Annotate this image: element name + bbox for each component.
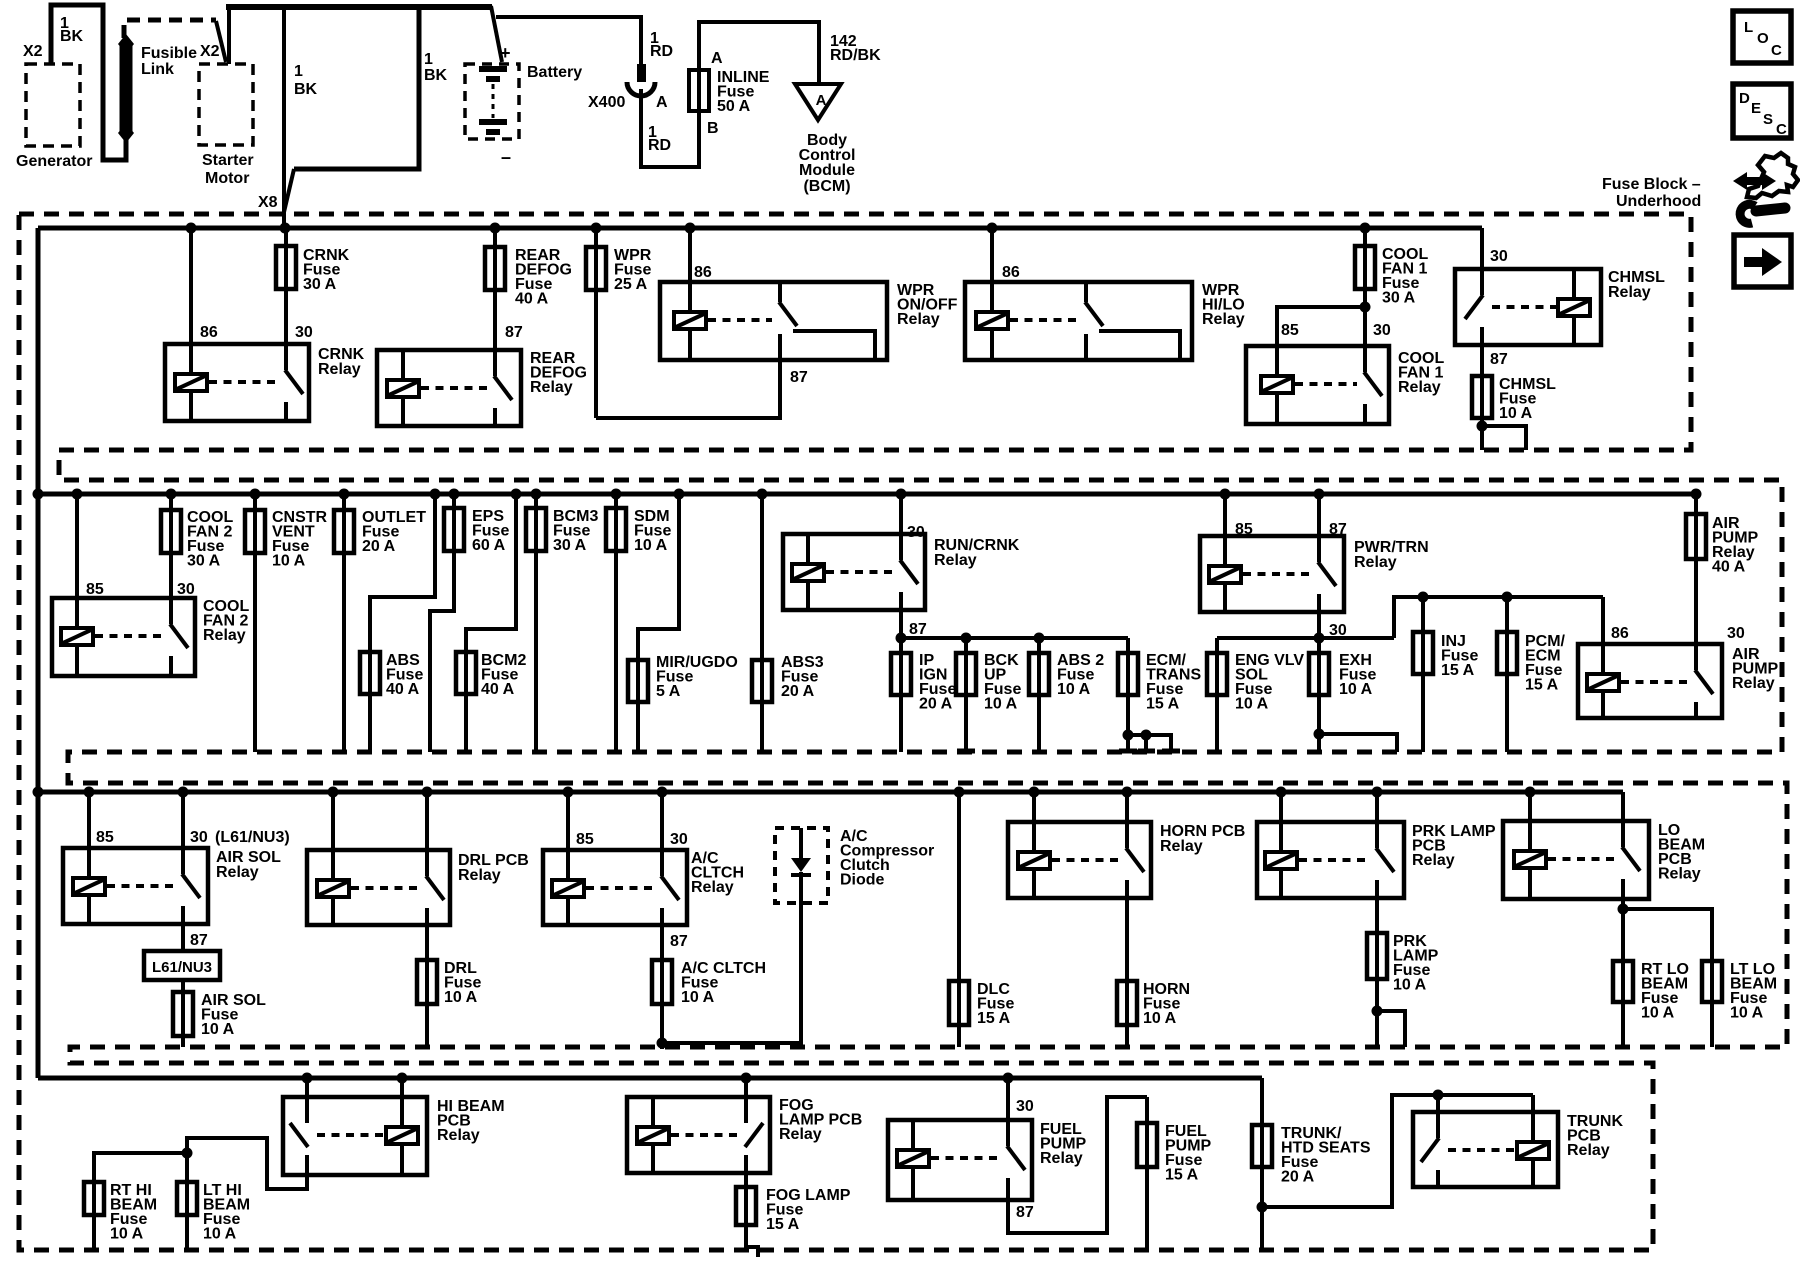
svg-text:10 A: 10 A — [201, 1021, 235, 1038]
battery (dashed box) — [465, 64, 519, 139]
svg-text:30: 30 — [1727, 625, 1745, 642]
node LO BEAM output junction — [1618, 904, 1629, 915]
svg-text:30: 30 — [1016, 1098, 1034, 1115]
fuse FUEL PUMP 15 A — [1145, 1097, 1149, 1250]
fuse ABS3 20 A — [760, 494, 764, 752]
fuse CRNK 30 A — [284, 228, 288, 344]
wire LO BEAM output — [1621, 899, 1625, 909]
node DRL coil tap — [328, 787, 339, 798]
node SDM fuse tap — [611, 489, 622, 500]
node PRK LAMP coil tap — [1276, 787, 1287, 798]
fuse HORN 10 A — [1125, 898, 1129, 1047]
wire CHMSL relay 30 — [1480, 228, 1484, 295]
svg-text:15 A: 15 A — [977, 1010, 1011, 1027]
node HORN coil tap — [1029, 787, 1040, 798]
generator X2 connector (dashed box) — [26, 64, 80, 146]
svg-text:87: 87 — [190, 932, 208, 949]
node FUEL PUMP 30 tap — [1003, 1073, 1014, 1084]
relay FOG LAMP PCB — [627, 1097, 770, 1173]
node TRUNK fuse output — [1257, 1202, 1268, 1213]
svg-text:60 A: 60 A — [472, 537, 506, 554]
fuse DLC 15 A — [957, 792, 961, 1047]
node CRNK 86 tap — [186, 223, 197, 234]
svg-text:10 A: 10 A — [1641, 1005, 1675, 1022]
node WPR HI/LO 86 tap — [987, 223, 998, 234]
node PWR/TRN 85 tap — [1220, 489, 1231, 500]
svg-text:10 A: 10 A — [1235, 696, 1269, 713]
svg-text:Relay: Relay — [779, 1126, 822, 1143]
wire RUN/CRNK 87 bus — [899, 610, 903, 638]
svg-text:Relay: Relay — [1354, 554, 1397, 571]
relay WPR HI/LO — [965, 282, 1192, 360]
fuse BCM2 40 A — [466, 494, 516, 752]
svg-text:10 A: 10 A — [1499, 405, 1533, 422]
fuse LT HI BEAM 10 A — [185, 1153, 189, 1248]
wire battery + to X400 — [496, 17, 641, 64]
svg-text:Fusible: Fusible — [141, 45, 197, 62]
diode A/C compressor clutch (dashed box) — [775, 828, 828, 903]
wire HI BEAM relay switch — [305, 1078, 309, 1123]
svg-text:30: 30 — [1373, 322, 1391, 339]
svg-text:30 A: 30 A — [187, 553, 221, 570]
svg-text:40 A: 40 A — [515, 291, 549, 308]
wire HORN relay coil — [1032, 792, 1036, 852]
node PRK LAMP fuse output — [1372, 1006, 1383, 1017]
icon box LOC — [1733, 11, 1791, 63]
wire FUEL PUMP relay 30 — [1006, 1078, 1010, 1146]
node TRUNK relay switch tap — [1433, 1090, 1444, 1101]
svg-text:30: 30 — [177, 581, 195, 598]
node AIR SOL 30 tap — [178, 787, 189, 798]
relay WPR ON/OFF — [660, 282, 887, 360]
node PCM/ECM fuse tap — [1502, 592, 1513, 603]
svg-text:X400: X400 — [588, 94, 625, 111]
fuse PCM/ECM 15 A — [1505, 597, 1509, 752]
svg-text:87: 87 — [670, 933, 688, 950]
svg-text:10 A: 10 A — [272, 553, 306, 570]
svg-text:Motor: Motor — [205, 170, 249, 187]
node LO BEAM coil tap — [1525, 787, 1536, 798]
node BCM2 fuse tap — [511, 489, 522, 500]
node BCK UP fuse tap — [961, 633, 972, 644]
wire battery feed down and left — [294, 5, 419, 169]
fuse BCK UP 10 A — [964, 638, 968, 752]
svg-text:Underhood: Underhood — [1616, 193, 1701, 210]
svg-text:87: 87 — [1490, 351, 1508, 368]
wire A/C CLTCH relay 85 — [566, 792, 570, 880]
svg-text:15 A: 15 A — [1525, 677, 1559, 694]
svg-text:BK: BK — [60, 28, 84, 45]
wire 1 BK generator to fusible link — [51, 5, 126, 160]
node RUN/CRNK 87 junction — [896, 633, 907, 644]
node A/C CLTCH 85 tap — [563, 787, 574, 798]
node PWR/TRN 30 junction — [1314, 633, 1325, 644]
wire LO BEAM relay coil — [1528, 792, 1532, 851]
svg-text:10 A: 10 A — [110, 1226, 144, 1243]
svg-text:15 A: 15 A — [766, 1216, 800, 1233]
svg-text:10 A: 10 A — [1339, 681, 1373, 698]
relay REAR DEFOG — [377, 350, 521, 426]
wire CRNK relay 86 — [189, 228, 193, 374]
svg-text:Fuse Block –: Fuse Block – — [1602, 176, 1701, 193]
relay HORN PCB — [1008, 822, 1151, 898]
wire X400 to inline fuse B — [641, 96, 699, 167]
svg-text:40 A: 40 A — [481, 681, 515, 698]
svg-text:+: + — [500, 43, 511, 63]
fuse RT HI BEAM 10 A — [94, 1153, 187, 1248]
node COOL FAN 2 fuse tap — [166, 489, 177, 500]
svg-text:E: E — [1751, 100, 1761, 117]
svg-text:Relay: Relay — [1160, 838, 1203, 855]
svg-text:(BCM): (BCM) — [803, 178, 850, 195]
svg-text:40 A: 40 A — [386, 681, 420, 698]
wire PWR/TRN relay 85 — [1223, 494, 1227, 566]
svg-text:1: 1 — [424, 51, 433, 68]
relay CHMSL — [1455, 269, 1601, 345]
relay CRNK — [165, 344, 309, 421]
svg-text:87: 87 — [505, 324, 523, 341]
svg-text:10 A: 10 A — [1730, 1005, 1764, 1022]
node PRK LAMP switch tap — [1372, 787, 1383, 798]
fusible link harness dashed outline — [124, 20, 216, 38]
fuse ABS 2 10 A — [1037, 638, 1041, 752]
svg-text:A: A — [656, 94, 668, 111]
node AIR SOL 85 tap — [84, 787, 95, 798]
svg-text:RD/BK: RD/BK — [830, 47, 881, 64]
fuse CHMSL 10 A — [1472, 376, 1492, 418]
fuse REAR DEFOG 40 A — [493, 228, 497, 350]
fuse A/C CLTCH 10 A — [660, 925, 664, 1043]
fuse DRL 10 A — [425, 925, 429, 1047]
inline fuse 50 A — [697, 70, 701, 111]
wire slant into battery + — [491, 6, 502, 62]
row 1 feed bus — [38, 226, 1482, 231]
svg-text:20 A: 20 A — [781, 683, 815, 700]
wire AIR PUMP relay 86 — [1601, 597, 1605, 676]
node WPR ON/OFF 86 tap — [685, 223, 696, 234]
node bus spine row 2 — [33, 489, 44, 500]
fuse AIR SOL 10 A — [181, 980, 185, 1047]
fuse COOL FAN 2 30 A — [169, 494, 173, 598]
option box L61/NU3 — [144, 951, 220, 980]
svg-text:10 A: 10 A — [203, 1226, 237, 1243]
relay HI BEAM PCB — [283, 1097, 427, 1175]
svg-text:Relay: Relay — [1567, 1142, 1610, 1159]
svg-text:X8: X8 — [258, 194, 278, 211]
node HORN switch tap — [1122, 787, 1133, 798]
fuse FOG LAMP 15 A — [746, 1173, 758, 1257]
node RUN/CRNK 30 tap — [896, 489, 907, 500]
relay AIR PUMP — [1578, 644, 1722, 718]
fuse block underhood dashed boundary — [19, 214, 1787, 1250]
wire TRUNK relay switch — [1436, 1095, 1440, 1138]
node FOG LAMP switch tap — [741, 1073, 752, 1084]
node OUTLET fuse tap — [339, 489, 350, 500]
fuse WPR 25 A — [594, 228, 598, 418]
svg-text:Relay: Relay — [216, 864, 259, 881]
svg-text:30: 30 — [190, 829, 208, 846]
node DRL switch tap — [422, 787, 433, 798]
svg-text:25 A: 25 A — [614, 276, 648, 293]
svg-text:BK: BK — [424, 67, 448, 84]
svg-text:Module: Module — [799, 162, 855, 179]
relay COOL FAN 1 — [1246, 346, 1389, 424]
svg-text:Relay: Relay — [530, 379, 573, 396]
svg-text:10 A: 10 A — [444, 989, 478, 1006]
node bus spine row 3 — [33, 787, 44, 798]
fuse AIR PUMP relay 40 A — [1694, 494, 1698, 670]
svg-text:Relay: Relay — [1608, 284, 1651, 301]
wire WPR fuse to relay 87 — [596, 360, 780, 418]
svg-text:85: 85 — [1281, 322, 1299, 339]
svg-text:C: C — [1771, 42, 1782, 59]
svg-text:C: C — [1776, 121, 1787, 138]
fuse LT LO BEAM 10 A — [1623, 909, 1712, 1047]
node COOL FAN 2 85 tap — [72, 489, 83, 500]
svg-text:Relay: Relay — [458, 867, 501, 884]
node DLC fuse tap — [954, 787, 965, 798]
svg-text:Relay: Relay — [203, 627, 246, 644]
svg-text:Relay: Relay — [897, 311, 940, 328]
svg-text:10 A: 10 A — [681, 989, 715, 1006]
battery cell plates — [479, 66, 507, 72]
BCM connector triangle with pin A — [795, 84, 841, 120]
svg-text:86: 86 — [1002, 264, 1020, 281]
svg-text:A: A — [816, 92, 827, 109]
node EXH fuse output — [1314, 729, 1325, 740]
svg-text:30 A: 30 A — [303, 276, 337, 293]
node HI BEAM coil tap — [397, 1073, 408, 1084]
node COOL FAN 1 fuse output — [1360, 302, 1371, 313]
relay RUN/CRNK — [783, 534, 925, 610]
svg-text:X2: X2 — [200, 43, 220, 60]
node ABS3 fuse tap — [757, 489, 768, 500]
svg-text:15 A: 15 A — [1165, 1167, 1199, 1184]
wire A/C CLTCH output to diode — [662, 903, 801, 1043]
wire 1 BK main feed down to X8 — [282, 5, 286, 226]
icon vehicle with double arrow and wrench — [1733, 172, 1776, 190]
svg-text:10 A: 10 A — [984, 696, 1018, 713]
fuse OUTLET 20 A — [342, 494, 346, 752]
svg-text:86: 86 — [1611, 625, 1629, 642]
svg-text:Diode: Diode — [840, 872, 885, 889]
svg-text:30: 30 — [1490, 248, 1508, 265]
wire EXH output stubs — [1319, 734, 1397, 752]
fusible link — [120, 46, 133, 131]
svg-text:50 A: 50 A — [717, 98, 751, 115]
svg-text:10 A: 10 A — [634, 537, 668, 554]
starter motor X2 connector (dashed box) — [199, 64, 253, 145]
svg-text:15 A: 15 A — [1146, 696, 1180, 713]
wire HORN relay switch — [1125, 792, 1129, 848]
node ECM/TRANS output junctions — [1123, 730, 1134, 741]
svg-text:85: 85 — [86, 581, 104, 598]
svg-text:Relay: Relay — [1412, 852, 1455, 869]
wire DRL relay switch — [425, 792, 429, 876]
svg-text:20 A: 20 A — [362, 538, 396, 555]
svg-text:Relay: Relay — [1732, 675, 1775, 692]
svg-text:D: D — [1739, 90, 1750, 107]
svg-text:Starter: Starter — [202, 152, 254, 169]
relay PRK LAMP PCB — [1257, 822, 1404, 898]
wire FUEL PUMP 87 to fuse — [1008, 1097, 1147, 1233]
row 2 feed bus — [38, 492, 1696, 497]
node HI BEAM fuses junction — [182, 1148, 193, 1159]
wire CHMSL output stubs — [1480, 426, 1484, 450]
wire TRUNK relay coil — [1531, 1095, 1535, 1142]
node ABS 2 fuse tap — [1034, 633, 1045, 644]
svg-text:10 A: 10 A — [1143, 1010, 1177, 1027]
node A/C CLTCH fuse output — [657, 1038, 668, 1049]
wire CHMSL relay 87 to fuse — [1480, 345, 1484, 426]
row 3 feed bus — [38, 790, 1623, 795]
node CNSTR VENT fuse tap — [250, 489, 261, 500]
svg-text:Relay: Relay — [1040, 1150, 1083, 1167]
fuse EXH 10 A — [1317, 638, 1321, 734]
svg-text:Relay: Relay — [691, 879, 734, 896]
relay AIR SOL — [63, 848, 208, 924]
wire A/C CLTCH relay 30 — [660, 792, 664, 876]
wire ECM/TRANS output stubs — [1128, 735, 1171, 751]
node X8 junction — [280, 223, 291, 234]
wire PRK LAMP relay switch — [1375, 792, 1379, 848]
svg-text:BK: BK — [294, 81, 318, 98]
wire WPR ON/OFF relay 86 — [688, 228, 692, 314]
relay DRL PCB — [307, 850, 450, 925]
wire LO BEAM relay switch (bus end) — [1621, 792, 1625, 847]
fuse BCM3 30 A — [534, 494, 538, 752]
svg-text:87: 87 — [790, 369, 808, 386]
svg-text:30 A: 30 A — [1382, 290, 1416, 307]
fuse COOL FAN 1 30 A — [1363, 228, 1367, 346]
wire PWR/TRN 30 bus — [1317, 612, 1321, 638]
wire RUN/CRNK relay 30 — [899, 494, 903, 560]
node A/C CLTCH 30 tap — [657, 787, 668, 798]
fuse SDM 10 A — [614, 494, 618, 752]
svg-text:85: 85 — [96, 829, 114, 846]
fuse ENG VLV SOL 10 A — [1215, 638, 1219, 753]
relay COOL FAN 2 — [52, 598, 195, 676]
wire COOL FAN 2 relay 85 — [75, 494, 79, 628]
svg-text:10 A: 10 A — [1057, 681, 1091, 698]
wire PRK LAMP relay coil — [1279, 792, 1283, 852]
svg-text:Relay: Relay — [934, 552, 977, 569]
svg-text:–: – — [501, 147, 511, 167]
fuse EPS 60 A — [430, 494, 454, 752]
icon box DESC — [1733, 84, 1791, 138]
wire starter to battery bus — [227, 5, 231, 64]
relay LO BEAM PCB — [1503, 821, 1649, 899]
relay FUEL PUMP — [888, 1120, 1032, 1200]
svg-text:30: 30 — [670, 831, 688, 848]
relay PWR/TRN — [1200, 536, 1344, 612]
svg-text:RD: RD — [648, 137, 671, 154]
connector X400 — [637, 64, 646, 82]
relay TRUNK PCB — [1413, 1112, 1558, 1187]
wire inline fuse A to BCM — [699, 22, 819, 82]
fuse TRUNK/HTD SEATS 20 A — [1260, 1078, 1264, 1207]
relay A/C CLTCH — [543, 850, 687, 925]
svg-text:O: O — [1757, 30, 1769, 47]
node EPS fuse tap — [449, 489, 460, 500]
wire FOG LAMP relay switch — [744, 1078, 748, 1123]
fuse CNSTR VENT 10 A — [253, 494, 257, 752]
fuse PRK LAMP 10 A — [1375, 898, 1379, 1011]
svg-text:85: 85 — [576, 831, 594, 848]
wire AIR SOL relay 30 — [181, 792, 185, 874]
svg-text:1: 1 — [294, 63, 303, 80]
svg-text:20 A: 20 A — [919, 696, 953, 713]
icon box right arrow — [1734, 235, 1791, 287]
svg-text:Relay: Relay — [318, 361, 361, 378]
svg-text:X2: X2 — [23, 43, 43, 60]
wire HI BEAM relay coil — [400, 1078, 404, 1125]
svg-text:30: 30 — [295, 324, 313, 341]
node AIR PUMP relay fuse tap — [1691, 489, 1702, 500]
svg-text:87: 87 — [1016, 1204, 1034, 1221]
wire DRL relay coil — [331, 792, 335, 880]
svg-text:Generator: Generator — [16, 153, 92, 170]
svg-text:10 A: 10 A — [1393, 977, 1427, 994]
svg-text:Relay: Relay — [437, 1127, 480, 1144]
fuse ECM/TRANS 15 A — [1126, 638, 1130, 735]
wire HI BEAM output to beam fuses — [187, 1138, 307, 1189]
wire WPR HI/LO relay 86 — [990, 228, 994, 314]
node WPR fuse tap — [591, 223, 602, 234]
wire AIR SOL relay 85 — [87, 792, 91, 878]
node REAR DEFOG fuse tap — [490, 223, 501, 234]
left trunk wire (bus spine) — [36, 228, 41, 1078]
svg-text:L61/NU3: L61/NU3 — [152, 959, 212, 976]
svg-text:Relay: Relay — [1398, 379, 1441, 396]
svg-text:Battery: Battery — [527, 64, 582, 81]
wire PWR/TRN relay 87 — [1317, 494, 1321, 562]
svg-text:(L61/NU3): (L61/NU3) — [215, 829, 290, 846]
wire AIR SOL 87 to option box — [181, 924, 185, 951]
svg-text:30 A: 30 A — [553, 537, 587, 554]
svg-text:RD: RD — [650, 43, 673, 60]
node BCM3 fuse tap — [531, 489, 542, 500]
svg-text:40 A: 40 A — [1712, 559, 1746, 576]
wire PRK LAMP output stubs — [1377, 1011, 1405, 1047]
row 4 feed bus — [38, 1076, 1262, 1081]
svg-text:Link: Link — [141, 61, 174, 78]
svg-text:A: A — [711, 50, 723, 67]
fuse RT LO BEAM 10 A — [1621, 909, 1625, 1047]
fuse MIR/UGDO 5 A — [638, 494, 679, 752]
node COOL FAN 1 fuse tap — [1360, 223, 1371, 234]
node MIR/UGDO fuse tap — [674, 489, 685, 500]
fuse ABS 40 A — [370, 494, 435, 752]
node PWR/TRN 87 tap — [1314, 489, 1325, 500]
fuse IP IGN 20 A — [899, 638, 903, 695]
wire COOL FAN 1 relay 85 — [1277, 307, 1365, 374]
svg-text:20 A: 20 A — [1281, 1169, 1315, 1186]
svg-text:Relay: Relay — [1658, 866, 1701, 883]
wire TRUNK fuse output to relay — [1262, 1095, 1533, 1207]
wire X2 slant into starter — [216, 21, 226, 62]
svg-text:S: S — [1763, 111, 1773, 128]
svg-text:L: L — [1744, 19, 1753, 36]
node ABS fuse tap — [430, 489, 441, 500]
node HI BEAM switch tap — [302, 1073, 313, 1084]
node INJ fuse tap — [1418, 592, 1429, 603]
svg-text:86: 86 — [694, 264, 712, 281]
node CHMSL fuse output — [1477, 421, 1488, 432]
svg-text:87: 87 — [909, 621, 927, 638]
fuse INJ 15 A — [1421, 597, 1425, 752]
svg-text:5 A: 5 A — [656, 683, 681, 700]
